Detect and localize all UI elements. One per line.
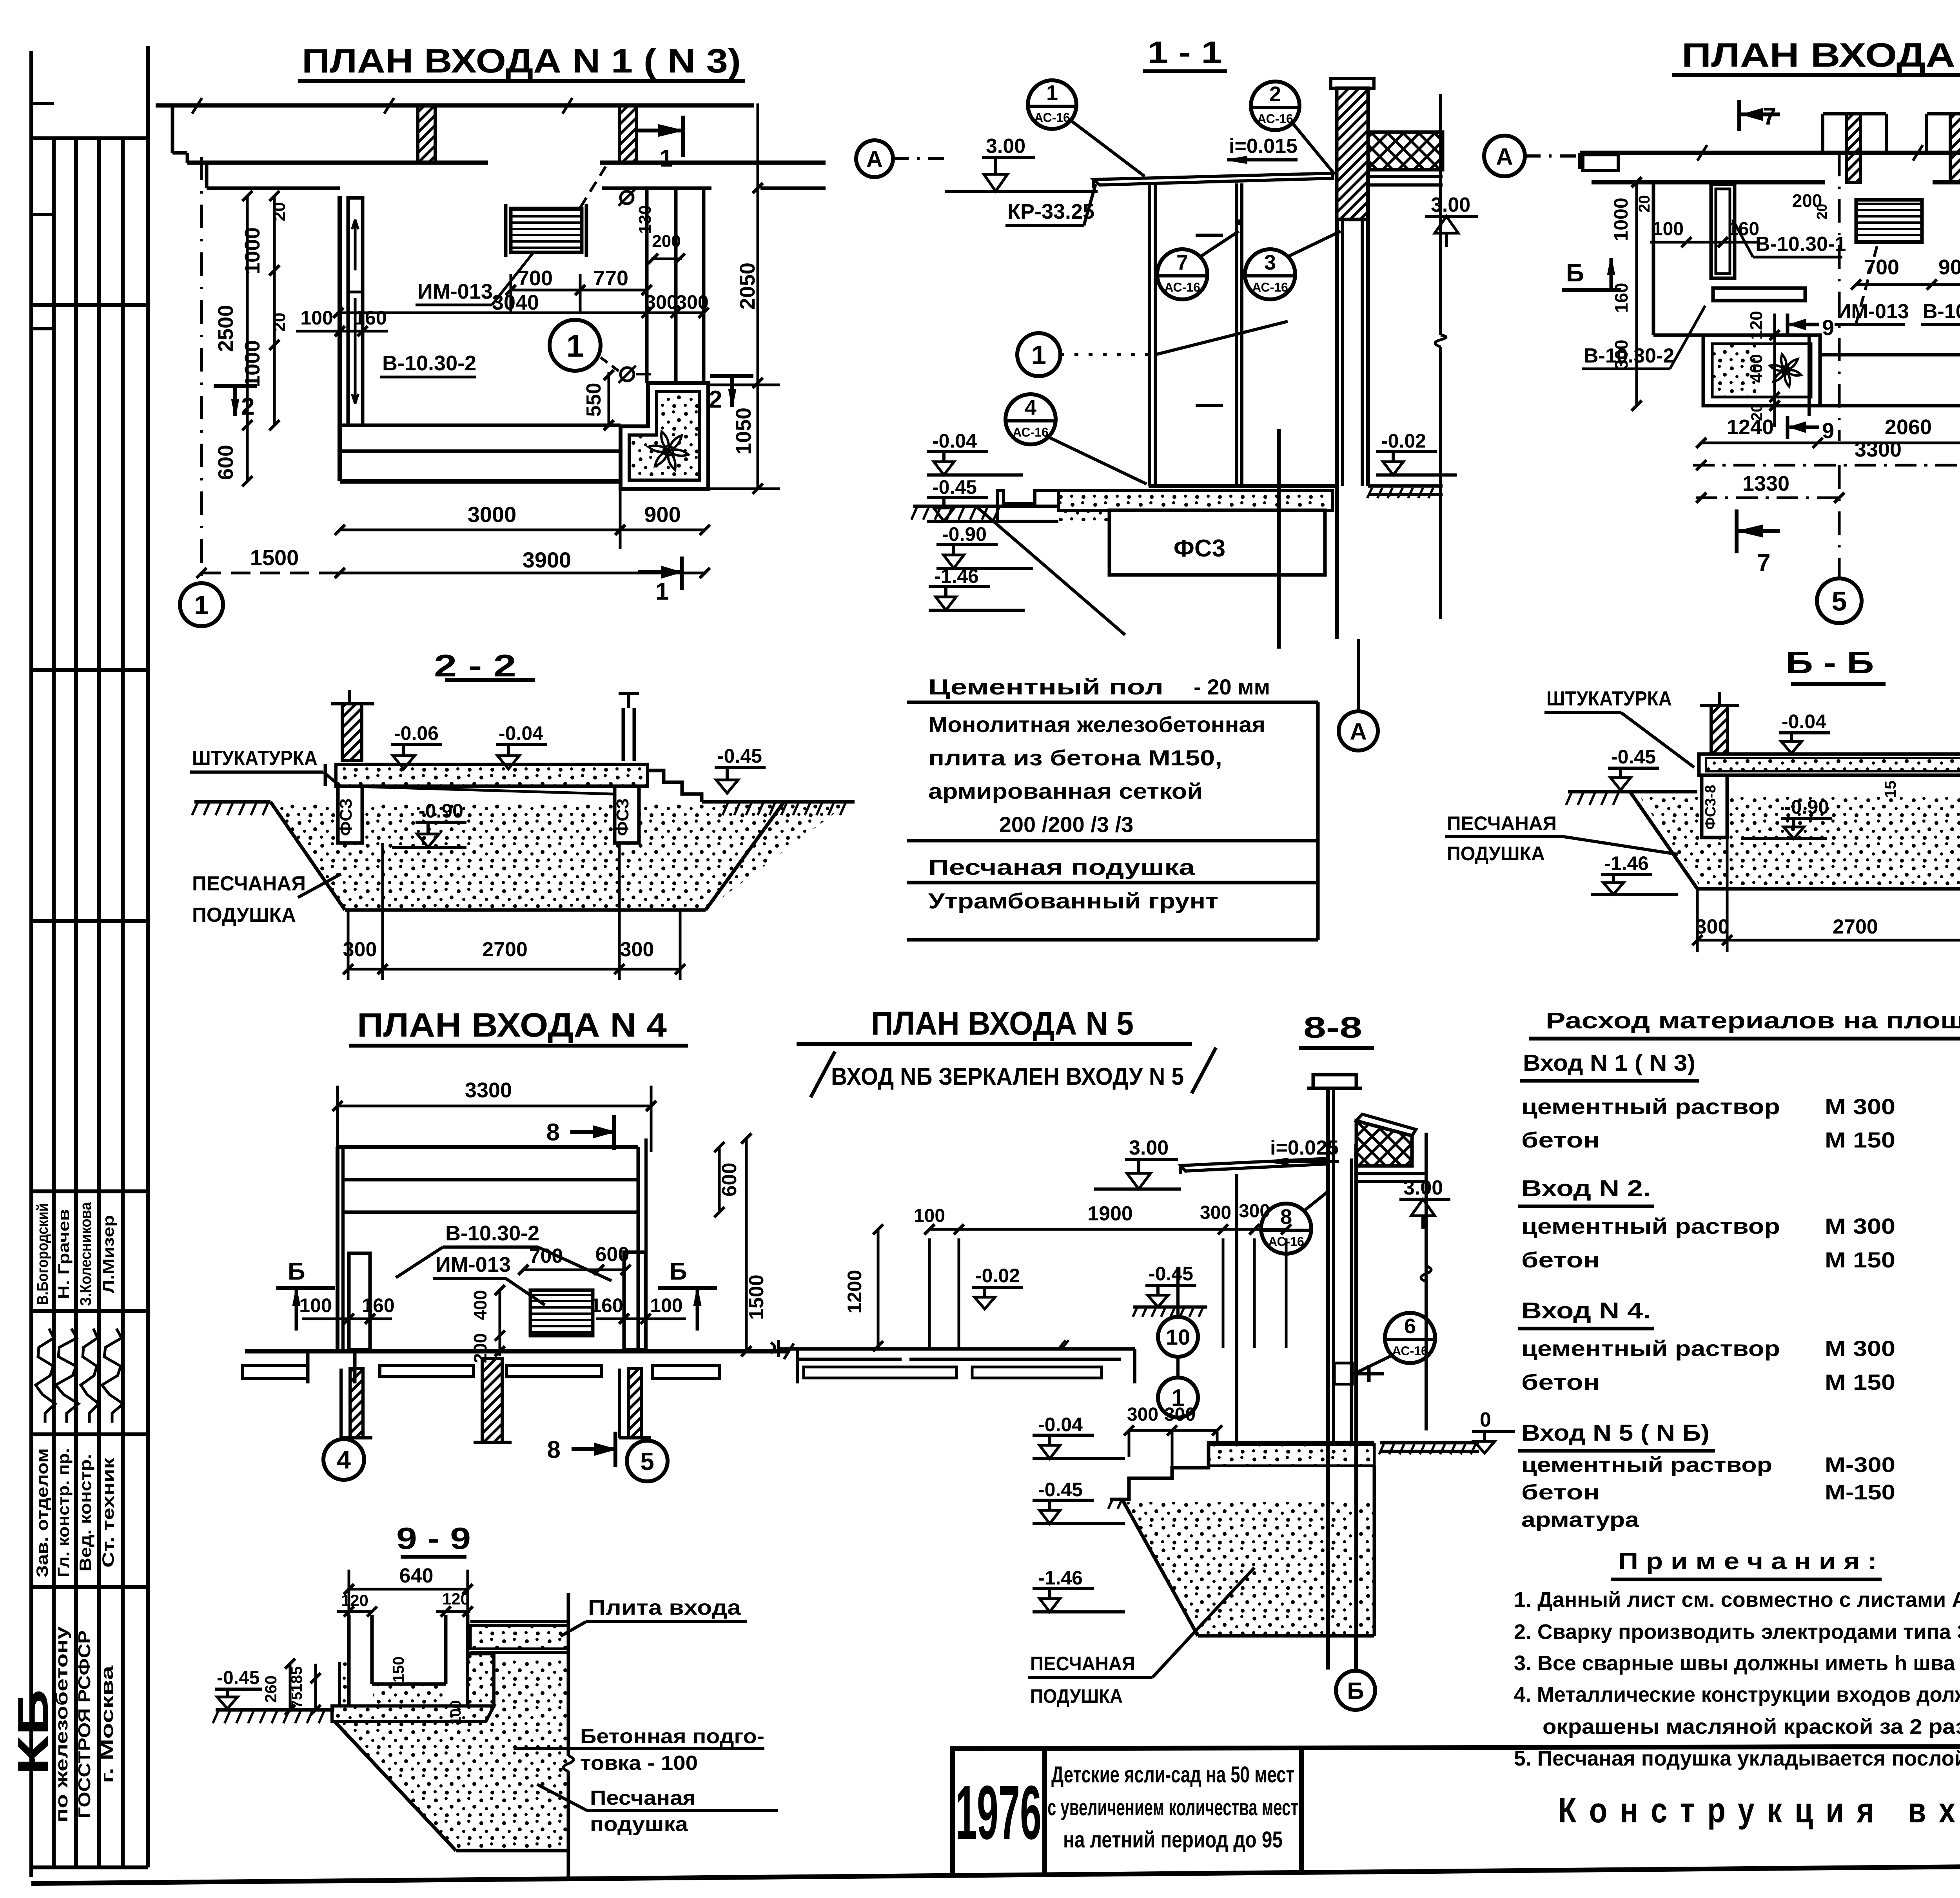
svg-text:ФСЗ: ФСЗ — [336, 798, 356, 836]
svg-text:1050: 1050 — [732, 408, 755, 455]
section 1-1 foundation block ФС3 — [1109, 510, 1325, 575]
svg-text:-0.45: -0.45 — [1038, 1479, 1083, 1501]
svg-text:Зав. отделом: Зав. отделом — [33, 1448, 51, 1577]
svg-text:АС-16: АС-16 — [1252, 280, 1288, 294]
section 1-1 canopy slab — [1094, 173, 1333, 185]
svg-text:8: 8 — [1280, 1205, 1292, 1229]
svg-text:-1.46: -1.46 — [1604, 852, 1649, 874]
svg-text:В-10.30-1: В-10.30-1 — [1755, 233, 1846, 256]
svg-text:5. Песчаная подушка укладыва: 5. Песчаная подушка укладывается послойн… — [1514, 1747, 1960, 1770]
section 9-9 concrete under channel — [339, 1661, 446, 1662]
svg-text:3. Все сварные швы должны: 3. Все сварные швы должны иметь h шва не… — [1514, 1651, 1960, 1675]
svg-text:АС-16: АС-16 — [1257, 112, 1293, 126]
section 8-8 axis circle Б bottom — [1354, 1636, 1357, 1671]
svg-text:бетон: бетон — [1521, 1370, 1600, 1394]
section 2-2 platform slab — [336, 764, 648, 786]
section 8-8 clip — [1334, 1363, 1352, 1384]
svg-text:-0.02: -0.02 — [1381, 430, 1426, 452]
svg-text:Монолитная железобетонная: Монолитная железобетонная — [928, 712, 1265, 737]
section 8-8 cornice crosshatch — [1356, 1121, 1412, 1166]
svg-text:3040: 3040 — [492, 291, 539, 314]
plan N1 window pier hatched right — [619, 105, 637, 163]
plan N1 flower bed L-shape — [621, 383, 708, 489]
svg-text:3.00: 3.00 — [986, 135, 1025, 158]
section 1-1 wall pier hatched — [1337, 88, 1368, 219]
svg-text:ФСЗ: ФСЗ — [613, 798, 632, 836]
svg-text:120: 120 — [442, 1590, 470, 1608]
svg-text:160: 160 — [362, 1294, 394, 1316]
svg-text:3300: 3300 — [1855, 438, 1902, 461]
section Б-Б trench outline — [1630, 792, 1697, 889]
plan N1 platform outline — [338, 196, 342, 481]
section 1-1 ref circle 3 АС-16 — [1245, 249, 1295, 299]
svg-text:ПЛАН ВХОДА N 2: ПЛАН ВХОДА N 2 — [1682, 36, 1960, 74]
svg-text:300: 300 — [1611, 340, 1632, 370]
svg-text:300: 300 — [645, 291, 677, 313]
section 1-1 ref circle 4 АС-16 — [1005, 394, 1056, 444]
svg-text:20: 20 — [270, 313, 289, 332]
svg-text:цементный раствор: цементный раствор — [1521, 1214, 1780, 1238]
svg-text:2: 2 — [709, 386, 722, 413]
svg-text:100: 100 — [300, 307, 333, 329]
svg-text:600: 600 — [214, 445, 238, 480]
svg-text:640: 640 — [399, 1564, 434, 1587]
plan N1 door grate ИМ-013 — [511, 208, 582, 252]
plan N1 window pier hatched left — [418, 105, 435, 163]
svg-text:плита из бетона М150,: плита из бетона М150, — [928, 745, 1222, 770]
svg-text:М-300: М-300 — [1825, 1453, 1895, 1477]
svg-text:300: 300 — [1695, 915, 1730, 938]
svg-text:6: 6 — [1404, 1314, 1416, 1338]
svg-text:Плита входа: Плита входа — [588, 1596, 741, 1619]
section 2-2 footing right ФСЗ — [615, 786, 639, 843]
svg-text:-0.06: -0.06 — [394, 722, 439, 744]
plan N2 flower bed — [1703, 335, 1820, 406]
plan N1 grate dashed leader — [580, 167, 606, 208]
plan N4 right pier — [624, 1252, 646, 1350]
svg-text:В-10.30-1: В-10.30-1 — [1923, 300, 1960, 323]
svg-text:8-8: 8-8 — [1303, 1011, 1362, 1044]
svg-text:цементный раствор: цементный раствор — [1521, 1094, 1780, 1119]
svg-text:1000: 1000 — [241, 340, 264, 387]
svg-text:Б: Б — [1347, 1678, 1364, 1704]
svg-text:ПОДУШКА: ПОДУШКА — [1030, 1685, 1123, 1707]
section 1-1 cornice crosshatch — [1368, 132, 1443, 170]
svg-text:3: 3 — [1264, 251, 1276, 274]
svg-text:М 300: М 300 — [1825, 1214, 1895, 1238]
svg-text:М 300: М 300 — [1825, 1094, 1895, 1119]
plan N1 section marker 1 top — [681, 116, 685, 157]
svg-text:1: 1 — [659, 145, 673, 172]
section 2-2 footing left ФСЗ — [338, 786, 362, 843]
svg-text:1: 1 — [655, 578, 669, 605]
svg-text:1: 1 — [566, 328, 584, 363]
plan N2 wall left step — [1578, 153, 1582, 169]
svg-text:9 - 9: 9 - 9 — [396, 1521, 471, 1555]
svg-text:100: 100 — [914, 1206, 945, 1226]
section 1-1 ref circle 2 АС-16 — [1251, 82, 1299, 130]
svg-text:700: 700 — [517, 266, 553, 290]
svg-text:2700: 2700 — [1833, 915, 1878, 938]
svg-text:2: 2 — [241, 393, 254, 420]
svg-text:Песчаная подушка: Песчаная подушка — [928, 855, 1195, 879]
svg-text:П р и м е ч а н и я :: П р и м е ч а н и я : — [1618, 1548, 1877, 1574]
section 9-9 wall axis vertical — [567, 1593, 570, 1756]
svg-text:ШТУКАТУРКА: ШТУКАТУРКА — [192, 747, 318, 770]
svg-text:100: 100 — [299, 1294, 332, 1316]
section 8-8 circle 10 — [1158, 1317, 1198, 1357]
svg-text:2500: 2500 — [214, 305, 238, 352]
svg-text:150: 150 — [390, 1657, 407, 1683]
svg-text:-0.90: -0.90 — [1784, 796, 1829, 818]
svg-text:-1.46: -1.46 — [1038, 1567, 1083, 1589]
svg-text:120: 120 — [1747, 311, 1766, 339]
plan N2 platform bottom lines — [1818, 335, 1822, 406]
svg-text:1330: 1330 — [1742, 472, 1789, 495]
svg-text:ИМ-013: ИМ-013 — [417, 280, 493, 303]
plan N4 axis circle 4 — [342, 1438, 345, 1439]
svg-text:Конструкция входов: Конструкция входов — [1558, 1791, 1960, 1830]
svg-text:-0.04: -0.04 — [932, 430, 977, 452]
svg-text:2 - 2: 2 - 2 — [434, 648, 516, 683]
plan N1 section marker 2 left — [214, 384, 257, 388]
title block top line — [953, 1745, 1960, 1749]
plan N2 platform left edge — [1652, 182, 1655, 335]
plan N2 section marker 9 lower — [1786, 416, 1789, 439]
svg-text:2060: 2060 — [1885, 415, 1932, 439]
svg-text:5: 5 — [1832, 586, 1847, 616]
svg-text:ПЛАН ВХОДА N 5: ПЛАН ВХОДА N 5 — [871, 1005, 1134, 1042]
section 1-1 drainpipe — [1277, 429, 1281, 649]
plan N2 shelf — [1713, 288, 1805, 301]
plan N1 target symbol top — [621, 191, 633, 204]
svg-text:1: 1 — [1046, 81, 1058, 105]
svg-text:1. Данный лист см. совместн: 1. Данный лист см. совместно с листами А… — [1514, 1588, 1960, 1612]
svg-text:КБ: КБ — [9, 1689, 57, 1775]
svg-text:М-150: М-150 — [1825, 1481, 1895, 1504]
svg-text:1000: 1000 — [241, 227, 264, 274]
svg-text:7: 7 — [1763, 103, 1776, 130]
svg-text:цементный раствор: цементный раствор — [1521, 1336, 1780, 1361]
svg-text:З.Колесникова: З.Колесникова — [77, 1202, 94, 1306]
section 8-8 circle 1 — [1158, 1378, 1198, 1418]
plan N4 hatched pier right below — [628, 1369, 641, 1438]
section 1-1 ref circle 1 АС-16 — [1028, 80, 1076, 129]
svg-text:АС-16: АС-16 — [1268, 1235, 1304, 1249]
svg-text:130: 130 — [635, 205, 655, 234]
svg-text:7: 7 — [1757, 549, 1770, 576]
svg-text:20: 20 — [1814, 204, 1830, 219]
plan N4 wall sills — [242, 1365, 308, 1378]
svg-text:А: А — [1350, 718, 1367, 745]
svg-text:Расход материалов на площад: Расход материалов на площадки входов — [1546, 1008, 1960, 1033]
svg-text:бетон: бетон — [1521, 1247, 1600, 1272]
svg-text:В.Богородский: В.Богородский — [34, 1203, 51, 1305]
section 1-1 wall below — [1335, 219, 1339, 639]
svg-text:Б - Б: Б - Б — [1786, 645, 1874, 680]
title block vertical dividers — [950, 1746, 955, 1875]
svg-text:М 150: М 150 — [1825, 1128, 1895, 1152]
svg-text:2: 2 — [1269, 82, 1281, 106]
svg-text:Б: Б — [1566, 259, 1584, 287]
plan N2 wall lower line — [1592, 180, 1825, 185]
svg-text:Вход N 4.: Вход N 4. — [1521, 1298, 1651, 1323]
svg-text:160: 160 — [590, 1294, 623, 1316]
left stamp column strip — [29, 51, 33, 1877]
plan N1 section marker 2 right — [710, 374, 753, 378]
svg-text:160: 160 — [1728, 219, 1759, 239]
svg-text:3000: 3000 — [468, 502, 517, 527]
section 8-8 ref circle 6 АС-16 — [1385, 1313, 1435, 1363]
svg-text:окрашены масляной краской з: окрашены масляной краской за 2 раза. — [1543, 1715, 1960, 1738]
section 8-8 ground hatch left of steps — [1108, 1499, 1112, 1509]
section 2-2 trench outline — [270, 802, 345, 910]
svg-text:ФС3-8: ФС3-8 — [1702, 785, 1719, 830]
section 8-8 steps — [1110, 1443, 1374, 1499]
svg-text:бетон: бетон — [1521, 1128, 1600, 1152]
section 1-1 platform slab — [1149, 484, 1335, 488]
plan N2 wall top line — [1580, 151, 1960, 155]
svg-text:7: 7 — [1176, 251, 1188, 274]
section 9-9 base slab — [332, 1706, 494, 1721]
sheet frame bottom border — [31, 1860, 1960, 1883]
svg-text:г. Москва: г. Москва — [98, 1665, 117, 1783]
svg-text:по железобетону: по железобетону — [52, 1626, 71, 1822]
section Б-Б slab — [1699, 754, 1960, 775]
plan N1 section marker 1 bottom — [680, 557, 684, 590]
svg-text:1240: 1240 — [1727, 415, 1774, 439]
svg-text:900: 900 — [1938, 256, 1960, 279]
svg-text:3.00: 3.00 — [1129, 1137, 1169, 1159]
section 2-2 right wall post — [622, 708, 625, 761]
svg-text:ИМ-013: ИМ-013 — [436, 1253, 511, 1276]
svg-text:ПЕСЧАНАЯ: ПЕСЧАНАЯ — [192, 872, 306, 895]
section 8-8 parapet cap — [1313, 1075, 1356, 1088]
svg-text:ГОССТРОЯ РСФСР: ГОССТРОЯ РСФСР — [75, 1630, 94, 1818]
plan N1 axis circle 1 — [180, 583, 223, 626]
svg-text:ПОДУШКА: ПОДУШКА — [1447, 843, 1545, 865]
plan N1 target symbol bottom — [621, 368, 634, 381]
plan N1 big circle mark 1 — [550, 320, 601, 371]
svg-text:АС-16: АС-16 — [1013, 425, 1049, 439]
svg-text:товка - 100: товка - 100 — [580, 1752, 698, 1775]
svg-text:ПОДУШКА: ПОДУШКА — [192, 904, 296, 926]
svg-text:М 150: М 150 — [1825, 1247, 1895, 1272]
svg-text:400: 400 — [470, 1290, 490, 1320]
plan N2 section marker 7 top — [1737, 100, 1741, 131]
svg-text:4: 4 — [337, 1446, 351, 1474]
plan N4 grate ИМ-013 — [530, 1290, 593, 1336]
section 2-2 excavation stipple — [274, 804, 847, 910]
svg-text:2. Сварку производить электр: 2. Сварку производить электродами типа Э… — [1514, 1620, 1960, 1644]
section 1-1 ground right — [1368, 484, 1443, 488]
svg-text:цементный раствор: цементный раствор — [1521, 1453, 1772, 1477]
section 9-9 ground line — [216, 1708, 334, 1712]
plan N1 axis line vertical — [200, 157, 203, 582]
section Б-Б left pier hatched — [1711, 705, 1728, 754]
svg-text:АС-16: АС-16 — [1392, 1344, 1428, 1358]
svg-text:ИМ-013: ИМ-013 — [1837, 300, 1909, 323]
svg-text:300: 300 — [1127, 1404, 1158, 1425]
plan N4 hatched pier center below — [482, 1358, 502, 1442]
svg-text:М 150: М 150 — [1825, 1370, 1895, 1394]
svg-text:160: 160 — [354, 307, 387, 329]
svg-text:ПЕСЧАНАЯ: ПЕСЧАНАЯ — [1447, 812, 1557, 834]
svg-text:АС-16: АС-16 — [1164, 280, 1200, 294]
plan N4 section marker 8 top — [612, 1115, 616, 1150]
svg-text:-0.90: -0.90 — [942, 523, 987, 545]
plan N4 section marker 8 bottom — [613, 1432, 617, 1467]
svg-text:700: 700 — [529, 1245, 563, 1267]
section 1-1 ground left — [913, 505, 1058, 508]
svg-text:В-10.30-2: В-10.30-2 — [382, 352, 476, 375]
svg-text:ПЛАН ВХОДА N 4: ПЛАН ВХОДА N 4 — [357, 1006, 667, 1044]
section 1-1 interior break line — [1439, 94, 1442, 335]
section 1-1 posts — [1148, 184, 1151, 486]
svg-text:9: 9 — [1822, 315, 1834, 340]
svg-text:Вед. констр.: Вед. констр. — [76, 1454, 94, 1572]
plan N1 wall panel В-10.30-2 — [348, 198, 363, 425]
svg-text:4. Металлические конструкции: 4. Металлические конструкции входов долж… — [1514, 1683, 1960, 1706]
svg-text:-1.46: -1.46 — [934, 565, 979, 587]
svg-text:900: 900 — [644, 502, 681, 527]
stamp cursive signatures — [36, 1329, 55, 1423]
plan N2 grate ИМ-013 — [1856, 200, 1922, 242]
section Б-Б footing left ФС3-8 — [1702, 775, 1727, 838]
svg-text:1000: 1000 — [1610, 198, 1632, 241]
svg-text:300: 300 — [620, 938, 654, 961]
svg-text:Л.Мизер: Л.Мизер — [100, 1215, 117, 1293]
svg-text:400: 400 — [1747, 354, 1766, 383]
svg-text:В-10.30-2: В-10.30-2 — [445, 1222, 539, 1245]
svg-text:200: 200 — [652, 232, 681, 251]
section 8-8 interior break — [1425, 1133, 1428, 1430]
svg-text:Б: Б — [670, 1258, 687, 1285]
plan N4 hatched pier left below — [350, 1369, 363, 1438]
svg-text:-0.45: -0.45 — [932, 476, 977, 498]
svg-text:А: А — [1496, 143, 1513, 170]
svg-text:100: 100 — [1652, 219, 1684, 239]
svg-text:3.00: 3.00 — [1403, 1177, 1443, 1199]
svg-text:ВХОД NБ ЗЕРКАЛЕН ВХОДУ N 5: ВХОД NБ ЗЕРКАЛЕН ВХОДУ N 5 — [831, 1063, 1184, 1090]
svg-text:3.00: 3.00 — [1431, 194, 1470, 216]
plan N2 axis dash line — [1838, 153, 1841, 441]
svg-text:1500: 1500 — [250, 545, 299, 570]
svg-text:ПЕСЧАНАЯ: ПЕСЧАНАЯ — [1030, 1653, 1135, 1675]
svg-text:Н. Грачев: Н. Грачев — [55, 1209, 73, 1299]
svg-text:8: 8 — [546, 1119, 560, 1146]
plan N2 window pier hatched left — [1846, 114, 1860, 182]
section 8-8 ground right — [1380, 1441, 1479, 1445]
section 2-2 steps right — [648, 770, 702, 802]
svg-text:700: 700 — [1864, 256, 1899, 279]
svg-text:5: 5 — [640, 1447, 654, 1476]
plan N1 right edge verticals — [645, 188, 649, 383]
svg-text:-0.04: -0.04 — [499, 722, 543, 744]
svg-text:Песчаная: Песчаная — [590, 1787, 696, 1809]
svg-text:9: 9 — [1822, 418, 1834, 443]
section 9-9 big sand mass — [334, 1661, 568, 1851]
plan N4 wall line — [245, 1349, 789, 1354]
svg-text:600: 600 — [718, 1163, 741, 1197]
svg-text:1: 1 — [194, 590, 209, 620]
plan N2 section marker 9 upper — [1786, 314, 1789, 336]
plan N2 section marker 7 bottom — [1735, 509, 1739, 553]
svg-text:300: 300 — [1164, 1404, 1196, 1425]
plan N2 axis circle 5 — [1817, 578, 1862, 623]
svg-text:4: 4 — [1025, 396, 1036, 419]
svg-text:20: 20 — [270, 202, 289, 221]
svg-text:арматура: арматура — [1521, 1508, 1639, 1532]
plan N1 wall lower lines — [187, 161, 488, 165]
svg-text:-0.45: -0.45 — [1611, 746, 1656, 768]
svg-text:Ст. техник: Ст. техник — [99, 1457, 117, 1568]
svg-text:-0.45: -0.45 — [217, 1668, 260, 1688]
svg-text:100: 100 — [650, 1294, 682, 1316]
svg-text:-0.45: -0.45 — [717, 745, 762, 767]
svg-text:-0.04: -0.04 — [1038, 1414, 1083, 1436]
svg-text:армированная сеткой: армированная сеткой — [928, 779, 1203, 803]
svg-text:АС-16: АС-16 — [1034, 111, 1070, 125]
svg-text:Вход N 5 ( N Б): Вход N 5 ( N Б) — [1521, 1420, 1710, 1446]
section Б-Б ground left — [1568, 790, 1697, 794]
svg-text:бетон: бетон — [1521, 1481, 1600, 1504]
section 9-9 entrance slab plita — [470, 1620, 568, 1623]
section 1-1 ref circle 7 АС-16 — [1157, 249, 1207, 299]
svg-text:с увеличением количества мест: с увеличением количества мест — [1047, 1795, 1298, 1820]
svg-text:Цементный пол: Цементный пол — [928, 674, 1163, 699]
plan N1 flower symbol — [648, 431, 688, 470]
section Б-Б excavation stipple — [1639, 795, 1960, 886]
plan N1 wall left end step — [171, 105, 174, 153]
svg-text:Гл. констр. пр.: Гл. констр. пр. — [54, 1448, 73, 1577]
svg-text:подушка: подушка — [590, 1813, 688, 1836]
plan N4 canopy rect lines — [338, 1145, 638, 1149]
svg-text:160: 160 — [1611, 283, 1632, 313]
svg-text:3900: 3900 — [523, 547, 572, 572]
section 9-9 channel walls — [347, 1615, 351, 1706]
svg-text:300: 300 — [1200, 1202, 1231, 1223]
section 1-1 circle 1 — [1017, 333, 1060, 376]
svg-text:ПЛАН ВХОДА N 1 ( N 3): ПЛАН ВХОДА N 1 ( N 3) — [302, 42, 741, 80]
svg-text:2050: 2050 — [736, 263, 759, 310]
svg-text:300: 300 — [676, 291, 708, 313]
svg-text:Б: Б — [288, 1258, 305, 1285]
svg-text:2700: 2700 — [482, 938, 528, 961]
plan N1 wall top line — [156, 103, 754, 108]
svg-text:200 /200 /3 /3: 200 /200 /3 /3 — [999, 812, 1134, 837]
svg-text:1900: 1900 — [1087, 1202, 1133, 1225]
svg-text:120: 120 — [341, 1591, 368, 1610]
svg-text:i=0.015: i=0.015 — [1229, 135, 1298, 158]
section 1-1 axis circle A bottom — [1357, 639, 1360, 711]
svg-text:1: 1 — [1031, 340, 1046, 370]
section 8-8 platform edge plan band — [779, 1347, 1135, 1351]
svg-text:8: 8 — [547, 1436, 561, 1463]
svg-text:Бетонная подго-: Бетонная подго- — [580, 1725, 764, 1748]
svg-text:ШТУКАТУРКА: ШТУКАТУРКА — [1546, 687, 1672, 710]
svg-text:Вход N 1 ( N 3): Вход N 1 ( N 3) — [1523, 1050, 1695, 1076]
svg-text:Детские ясли-сад на 50 мест: Детские ясли-сад на 50 мест — [1051, 1762, 1294, 1787]
section 8-8 platform stipple band — [1209, 1445, 1374, 1466]
plan N2 pier В-10.30-1 — [1711, 184, 1735, 278]
plan N4 left pier — [349, 1253, 370, 1350]
plan N2 axis circle A — [1484, 136, 1525, 176]
svg-text:260: 260 — [261, 1675, 280, 1703]
svg-text:А: А — [866, 147, 883, 172]
svg-text:-0.02: -0.02 — [975, 1265, 1020, 1287]
svg-text:3300: 3300 — [465, 1079, 512, 1102]
